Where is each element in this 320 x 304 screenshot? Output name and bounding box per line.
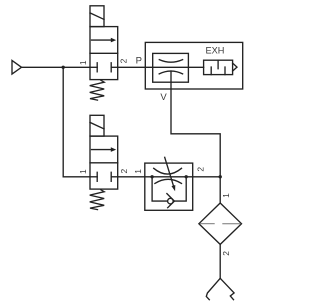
valve V2 blocked ports position xyxy=(90,172,118,181)
wire down to filter xyxy=(219,177,221,203)
venturi bottom arc xyxy=(159,71,182,74)
wire from source to valve V1 port 1 xyxy=(22,66,91,68)
valve V1 return spring xyxy=(90,80,105,100)
filter element dashed line left segment xyxy=(200,223,214,225)
node junction dot right xyxy=(219,175,222,178)
svg-text:P: P xyxy=(136,56,142,67)
wire valve V2 port 2 to flow control xyxy=(118,176,145,178)
suction branch left leg with kink xyxy=(206,278,220,299)
silencer outlet triangle xyxy=(233,63,237,71)
flow control through line xyxy=(145,176,193,178)
flow control valve box xyxy=(145,163,193,210)
valve V1 body with flow arrow position xyxy=(90,27,118,80)
check valve circle xyxy=(168,198,174,204)
check valve seat xyxy=(167,194,175,208)
svg-text:1: 1 xyxy=(133,169,143,174)
vacuum generator assembly box xyxy=(145,42,242,89)
svg-text:V: V xyxy=(160,92,167,103)
valve V1 blocked ports position xyxy=(90,63,118,72)
valve V2 return spring xyxy=(90,190,105,210)
svg-text:2: 2 xyxy=(196,167,206,172)
filter element dashed line right segment xyxy=(223,223,240,225)
svg-text:1: 1 xyxy=(78,60,88,65)
silencer EXH body xyxy=(204,60,233,74)
valve V2 body with flow arrow position xyxy=(90,136,118,189)
svg-text:2: 2 xyxy=(119,58,129,63)
venturi top arc xyxy=(159,60,182,63)
flow control throttle bottom arc xyxy=(155,179,182,183)
suction branch right leg with kink xyxy=(220,278,234,299)
wire valve V1 port 2 to vacuum generator P xyxy=(118,66,146,68)
silencer inner stubs xyxy=(211,60,225,74)
flow control bypass line xyxy=(152,177,186,201)
through line P to silencer xyxy=(145,66,203,68)
node dot bypass right xyxy=(185,175,188,178)
svg-text:EXH: EXH xyxy=(206,45,225,55)
wire branch down to valve V2 port 1 xyxy=(63,67,90,177)
svg-text:2: 2 xyxy=(221,251,231,256)
svg-text:2: 2 xyxy=(119,169,129,174)
node junction dot xyxy=(62,66,65,69)
solenoid of valve V1 xyxy=(90,6,104,27)
wire flow control to right vertical xyxy=(193,176,221,178)
svg-text:1: 1 xyxy=(78,169,88,174)
venturi nozzle box xyxy=(153,53,189,82)
flow control adjustment arrow xyxy=(165,157,176,191)
wire V port down and across to right vertical xyxy=(171,71,220,177)
svg-text:1: 1 xyxy=(221,193,231,198)
solenoid of valve V2 xyxy=(90,115,104,136)
wire filter to suction branch xyxy=(219,244,221,278)
compressed air source triangle xyxy=(12,61,22,75)
flow control throttle top arc xyxy=(154,168,182,174)
node dot bypass left xyxy=(150,175,153,178)
filter diamond xyxy=(199,203,242,244)
